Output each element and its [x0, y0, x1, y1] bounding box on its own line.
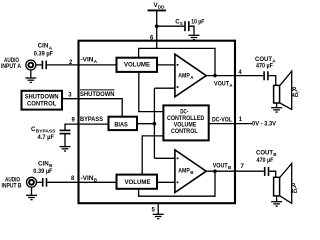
svg-text:VOLUME: VOLUME: [125, 179, 151, 186]
wire VDD to pin 6 into IC: [156, 10, 158, 48]
svg-text:5: 5: [152, 207, 156, 213]
svg-text:S: S: [180, 21, 183, 26]
ground (pin 5): [153, 214, 164, 218]
svg-text:10 µF: 10 µF: [191, 19, 204, 26]
svg-text:9: 9: [72, 118, 76, 124]
svg-text:VOUT: VOUT: [214, 80, 229, 87]
wire DC volume control to VOLUME B top: [142, 136, 163, 175]
junction dot (VDD / CS tap): [155, 24, 159, 28]
connector J1 audio input A: [26, 60, 36, 70]
label CBYPASS: [31, 126, 55, 134]
block VOLUME B: [117, 175, 158, 189]
label CS: [175, 18, 183, 26]
svg-text:0.39 µF: 0.39 µF: [33, 168, 52, 175]
block VOLUME A: [117, 58, 158, 72]
svg-text:8: 8: [71, 176, 75, 182]
svg-text:A: A: [94, 59, 98, 64]
svg-text:VOLUME: VOLUME: [124, 61, 150, 68]
wire COUTA to speaker A: [269, 76, 276, 86]
speaker RL B: [274, 164, 292, 204]
IC boundary box U1: [79, 41, 236, 204]
capacitor COUTA: [264, 71, 268, 80]
svg-text:AMP: AMP: [178, 167, 190, 174]
svg-text:B: B: [273, 152, 277, 157]
wire bias bus to AMPA non-inverting input: [154, 87, 175, 89]
svg-text:SHUTDOWN: SHUTDOWN: [25, 94, 59, 101]
svg-text:-VIN: -VIN: [81, 57, 95, 64]
block SHUTDOWN CONTROL (external): [22, 91, 63, 110]
wire bias bus to AMPB non-inverting input: [154, 157, 175, 159]
label AUDIO INPUT B: [2, 177, 22, 190]
ground (CS): [189, 35, 200, 39]
label CINB: [38, 160, 53, 168]
svg-text:CONTROL: CONTROL: [171, 129, 198, 135]
junction dot (bias bus): [153, 122, 157, 126]
node SHUTDOWN (overlined): [80, 90, 115, 98]
svg-text:CIN: CIN: [38, 160, 49, 167]
wire AMPB output to pin 7 and COUTB: [206, 170, 264, 172]
wire input B jack to CINB: [36, 181, 42, 183]
label RL (B): [291, 183, 298, 189]
ground (audio input B): [26, 187, 37, 200]
svg-text:B: B: [94, 177, 98, 182]
wire VOLUME A out to AMPA inverting input: [157, 64, 175, 66]
svg-text:BYPASS: BYPASS: [36, 128, 56, 133]
op-amp AMPA: [175, 54, 206, 97]
wire CS to ground: [190, 26, 194, 35]
svg-text:B: B: [190, 170, 194, 175]
AMPB inverting input mark: [177, 182, 179, 184]
svg-text:CONTROLLED: CONTROLLED: [167, 116, 205, 122]
wire CINB to pin 8 / VOLUME B: [47, 181, 116, 183]
wire DC-VOL to pin 1: [209, 123, 252, 125]
svg-text:AMP: AMP: [178, 73, 190, 80]
svg-text:A: A: [229, 83, 233, 88]
ground (CBYPASS): [60, 147, 71, 151]
svg-text:DC-VOL: DC-VOL: [212, 117, 232, 124]
node VOUTA junction dot: [213, 74, 217, 78]
wire VOLUME A bottom to DC volume control: [139, 72, 164, 112]
label VOUTB: [213, 162, 232, 170]
node VOUTB junction dot: [213, 169, 217, 173]
svg-text:BYPASS: BYPASS: [80, 116, 103, 123]
label COUTA: [255, 56, 276, 64]
svg-text:4Ω: 4Ω: [292, 93, 299, 99]
wire AMPA output to pin 4 and COUTA: [206, 75, 263, 77]
svg-text:BIAS: BIAS: [114, 121, 127, 128]
capacitor COUTB: [265, 167, 269, 176]
wire input A jack to CINA: [36, 64, 42, 66]
power VDD: [148, 2, 167, 10]
svg-text:DD: DD: [158, 5, 165, 10]
wire VOLUME B out to AMPB inverting input: [157, 181, 175, 183]
label CINA: [38, 43, 53, 51]
label COUTB: [256, 150, 277, 158]
svg-text:VOLUME: VOLUME: [174, 122, 197, 128]
wire shutdown control to pin 3 to BIAS: [62, 99, 122, 117]
wire CINA to pin 2 / VOLUME A: [47, 64, 117, 66]
wire BIAS out to bias bus: [137, 123, 154, 125]
svg-text:4Ω: 4Ω: [291, 189, 298, 195]
capacitor CINB: [43, 178, 47, 187]
ground (speaker A): [271, 103, 282, 112]
ground (audio input A): [25, 70, 36, 83]
wire feedback B (VOUTB to VOLUME B bottom): [139, 172, 215, 196]
svg-text:A: A: [49, 45, 53, 50]
svg-text:470 µF: 470 µF: [257, 157, 274, 164]
AMPB non-inverting input mark: [177, 158, 179, 160]
label VOUTA: [214, 80, 233, 88]
svg-text:SHUTDOWN: SHUTDOWN: [80, 91, 115, 98]
node -VINA: [81, 57, 98, 65]
wire VDD tap to CS: [157, 25, 185, 27]
svg-text:0.39 µF: 0.39 µF: [34, 51, 53, 58]
capacitor CBYPASS: [60, 130, 71, 133]
wire CBYPASS to ground: [64, 134, 66, 147]
wire bias bus vertical: [153, 88, 155, 158]
ground (speaker B): [271, 196, 282, 206]
op-amp AMPB: [175, 150, 206, 193]
label AUDIO INPUT A: [1, 57, 21, 70]
AMPA inverting input mark: [177, 64, 179, 66]
svg-text:3: 3: [68, 92, 72, 98]
label RL (A): [292, 87, 299, 93]
speaker RL A: [274, 71, 292, 109]
connector J2 audio input B: [27, 177, 37, 187]
svg-text:CONTROL: CONTROL: [27, 101, 57, 108]
svg-text:7: 7: [241, 164, 245, 170]
svg-text:0V - 3.3V: 0V - 3.3V: [252, 121, 277, 128]
wire feedback A (VOUTA to VOLUME A top): [139, 48, 215, 74]
svg-text:470 µF: 470 µF: [256, 63, 273, 70]
wire CBYPASS to pin 9 / BIAS: [65, 124, 109, 130]
svg-text:DC-: DC-: [180, 109, 188, 115]
svg-text:A: A: [190, 75, 194, 80]
wire pin 5 to ground: [157, 204, 159, 215]
svg-text:INPUT A: INPUT A: [1, 63, 21, 70]
svg-text:4.7 µF: 4.7 µF: [38, 134, 55, 141]
block BIAS: [109, 117, 138, 130]
svg-text:INPUT B: INPUT B: [2, 182, 22, 189]
svg-text:CIN: CIN: [38, 43, 49, 50]
AMPA non-inverting input mark: [177, 86, 179, 88]
node -VINB: [81, 175, 98, 183]
svg-text:VOUT: VOUT: [213, 162, 228, 169]
capacitor CS: [185, 21, 189, 31]
capacitor CINA: [42, 61, 46, 70]
wire COUTB to speaker B: [269, 171, 275, 177]
svg-text:B: B: [228, 165, 232, 170]
svg-text:-VIN: -VIN: [81, 175, 95, 182]
block DC-CONTROLLED VOLUME CONTROL: [163, 105, 208, 140]
svg-text:COUT: COUT: [256, 150, 273, 157]
svg-text:1: 1: [239, 117, 243, 123]
